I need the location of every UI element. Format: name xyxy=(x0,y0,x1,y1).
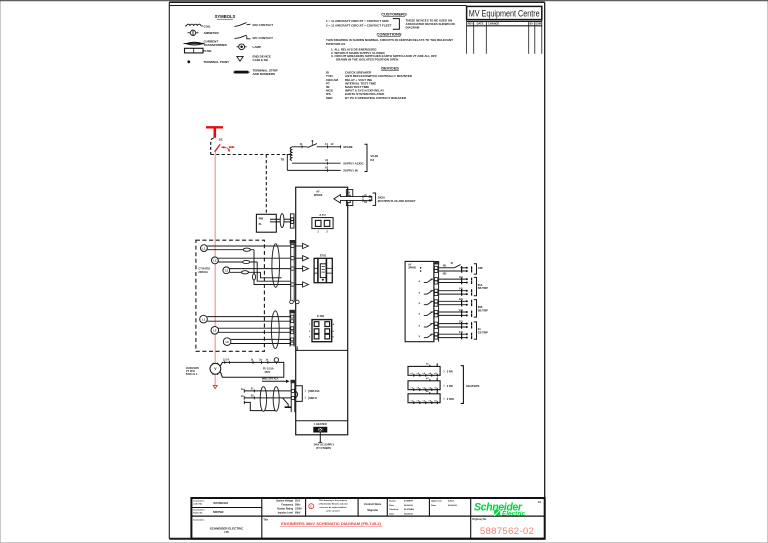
svg-text:COIL: COIL xyxy=(204,24,211,28)
svg-text:3PH60: 3PH60 xyxy=(314,193,323,197)
svg-text:TERMINAL POINT: TERMINAL POINT xyxy=(204,60,230,64)
outgoing row 7 wire markers xyxy=(462,333,472,340)
outgoing bracket 3 xyxy=(474,300,477,318)
svg-text:BY PA S OPERATING CONTACT BREA: BY PA S OPERATING CONTACT BREAKER xyxy=(345,96,407,100)
svg-text:E TB1: E TB1 xyxy=(317,314,325,318)
notes: conditions heading xyxy=(376,32,401,37)
relay arrow N xyxy=(303,282,309,287)
metering CT M3 circle xyxy=(223,338,231,346)
system data cell xyxy=(276,499,302,514)
svg-text:Impulse Level: Impulse Level xyxy=(278,512,294,514)
svg-text:2000/1A: 2000/1A xyxy=(198,271,208,274)
svg-text:Contract Name: Contract Name xyxy=(364,503,382,506)
notes: devices heading xyxy=(381,65,399,70)
notes: device list xyxy=(326,71,413,100)
CT L3 lens xyxy=(241,271,248,274)
CT L1 secondary wires xyxy=(207,245,291,247)
CT link wires into panel xyxy=(272,278,291,281)
CT L2 primary circle xyxy=(212,257,219,264)
VT earth stub wire xyxy=(244,402,274,410)
svg-text:Frequency: Frequency xyxy=(281,504,293,506)
svg-text:Order No: Order No xyxy=(193,513,203,515)
VT terminal rail xyxy=(291,383,295,412)
svg-text:1 HEATER: 1 HEATER xyxy=(314,422,327,426)
svg-text:TB: TB xyxy=(281,158,285,162)
test block terminals xyxy=(314,322,329,339)
power meter PM box xyxy=(256,214,276,232)
relay arrow B xyxy=(303,256,309,261)
svg-text:A TU: A TU xyxy=(319,213,325,217)
relay K2 mid line xyxy=(292,162,341,164)
notes: customer lines xyxy=(326,19,392,28)
svg-text:BB TRIP: BB TRIP xyxy=(478,287,488,290)
outgoing row 6 wire markers xyxy=(462,322,472,329)
CT rail terminals xyxy=(291,244,294,286)
svg-text:order No: order No xyxy=(193,504,203,506)
svg-text:MM2 SP2 41A: MM2 SP2 41A xyxy=(262,377,278,380)
svg-text:CHANGE: CHANGE xyxy=(488,22,500,26)
outgoing row 3 wires xyxy=(439,291,466,294)
CT L3 secondary wires xyxy=(230,268,291,270)
outgoing row 3 rail terminals xyxy=(434,289,437,292)
outgoing row 4 wires xyxy=(439,301,466,304)
outgoing row 6 relay contact xyxy=(424,324,434,327)
multipin bracket xyxy=(373,193,376,205)
svg-text:13 14: 13 14 xyxy=(223,358,229,361)
metering terminal rail xyxy=(290,313,294,346)
earth drop diagonal xyxy=(283,398,289,407)
customer order cell xyxy=(193,500,205,506)
svg-text:K2: K2 xyxy=(370,158,374,162)
metering cable trunk oval xyxy=(271,311,279,349)
svg-text:04-04-03: 04-04-03 xyxy=(448,504,458,507)
drawing frame xyxy=(169,2,544,539)
svg-text:CONDITIONS: CONDITIONS xyxy=(376,32,401,37)
heater element xyxy=(314,427,327,432)
outgoing row 2 wire markers xyxy=(462,277,472,284)
VT loopback link xyxy=(295,386,302,402)
our order cell xyxy=(193,509,205,515)
metering CT M1 circle xyxy=(200,315,208,323)
svg-text:Date: Date xyxy=(389,513,395,516)
CT terminal rail xyxy=(291,244,295,303)
svg-text:Customers: Customers xyxy=(193,518,205,521)
svg-text:CHK: CHK xyxy=(536,22,542,26)
relay K2 contact plunger dot xyxy=(312,140,314,142)
CT star point lens xyxy=(253,274,256,280)
CT L1 return drop xyxy=(254,250,291,285)
metering CT M2 wires xyxy=(219,327,291,329)
svg-text:This drawing is the property: This drawing is the property xyxy=(319,499,348,502)
svg-text:MULTIPIN PLUG AND SOCKET: MULTIPIN PLUG AND SOCKET xyxy=(378,199,416,203)
svg-text:N/O CONTACT: N/O CONTACT xyxy=(253,23,274,27)
svg-text:〉 3 RR: 〉 3 RR xyxy=(443,384,452,388)
metering CT M1 wires xyxy=(207,316,290,318)
svg-text:〉 ⎛MM N: 〉 ⎛MM N xyxy=(305,396,317,400)
svg-text:50Hz: 50Hz xyxy=(295,504,301,506)
svg-text:Title: Title xyxy=(263,518,268,521)
relay contact terminal ticks xyxy=(302,145,341,148)
svg-text:SUPPLY IN: SUPPLY IN xyxy=(343,169,357,173)
relay K2 bracket xyxy=(364,144,367,171)
svg-text:SK2A: SK2A xyxy=(378,196,385,200)
svg-text:Electric: Electric xyxy=(502,511,526,518)
earth bar xyxy=(285,406,292,408)
metering rail terminals xyxy=(291,315,294,345)
svg-text:CUSTOMERS: CUSTOMERS xyxy=(381,11,407,16)
title block outer box xyxy=(191,498,544,539)
red withdrawable breaker switch blade xyxy=(215,144,221,151)
salmon feeder line down to VT xyxy=(214,152,216,364)
outgoing row 3 relay contact xyxy=(424,291,434,294)
svg-text:250V: 250V xyxy=(265,371,271,374)
relay K2 left return wire xyxy=(286,155,288,171)
svg-text:5887562: 5887562 xyxy=(213,510,224,514)
drawn checked cell xyxy=(389,499,414,515)
svg-text:Customers: Customers xyxy=(193,509,205,512)
VT loop ticks xyxy=(253,361,268,364)
VT secondary wire n xyxy=(244,397,295,399)
svg-text:prior consent: prior consent xyxy=(326,509,340,512)
legend indicator lamp symbol xyxy=(237,44,247,50)
svg-text:50VA CL1: 50VA CL1 xyxy=(186,373,198,376)
VT wiring lens 1 xyxy=(260,387,266,412)
VT mini fuse circle xyxy=(274,358,278,362)
svg-text:CBF: CBF xyxy=(478,267,484,270)
notes: conditions paragraph xyxy=(326,38,453,62)
outgoing terminal cubicle box xyxy=(405,261,434,341)
svg-text:11kV: 11kV xyxy=(295,500,301,502)
aux transformer box xyxy=(312,218,333,229)
revision table headers xyxy=(468,22,542,26)
metering CT M3 wires xyxy=(231,338,290,340)
legend N/O contact symbol xyxy=(235,23,251,27)
test block E TB1 body xyxy=(312,320,332,342)
outgoing row 5 relay contact xyxy=(424,312,434,315)
svg-text:N/C CONTACT: N/C CONTACT xyxy=(253,36,274,40)
svg-text:SPARE: SPARE xyxy=(343,145,353,149)
svg-text:DATE: DATE xyxy=(477,22,484,26)
svg-text:04-04-03: 04-04-03 xyxy=(404,513,414,516)
title block grid xyxy=(191,498,544,539)
svg-text:M.JONES: M.JONES xyxy=(404,509,414,511)
legend changeover contact symbol xyxy=(235,35,251,39)
svg-text:AMMETER: AMMETER xyxy=(204,31,220,35)
svg-text:of Schneider Electric Ltd and: of Schneider Electric Ltd and xyxy=(319,503,348,506)
svg-text:SCHNEIDER ELECTRIC: SCHNEIDER ELECTRIC xyxy=(210,526,244,530)
svg-text:CABLE SB: CABLE SB xyxy=(253,58,269,62)
notes: customers heading xyxy=(381,11,407,16)
approved cell xyxy=(431,499,457,506)
CT L3 primary circle xyxy=(223,267,230,274)
svg-text:ENGINEERS 36kV SCHEMATIC DIAGR: ENGINEERS 36kV SCHEMATIC DIAGRAM (FB-T45… xyxy=(281,522,381,526)
relay arrow C xyxy=(303,266,309,271)
svg-text:LAMP: LAMP xyxy=(253,45,262,49)
wire a start tick xyxy=(244,389,254,404)
svg-text:Date: Date xyxy=(431,504,437,507)
outgoing row 7 wires xyxy=(439,334,466,337)
outgoing terminal rail xyxy=(434,261,439,341)
panel compartment divider upper xyxy=(296,349,348,351)
relay K2 bottom line xyxy=(287,169,340,171)
svg-text:1250A: 1250A xyxy=(295,507,302,510)
multipin socket arrow xyxy=(334,195,372,203)
outgoing row 4 rail terminals xyxy=(434,300,437,303)
svg-text:Busbar Rating: Busbar Rating xyxy=(277,507,293,510)
outgoing row 1 wire markers xyxy=(462,266,472,273)
svg-text:〉 3 SPH: 〉 3 SPH xyxy=(443,397,454,401)
svg-text:BY: BY xyxy=(530,22,534,26)
heater supply drop xyxy=(319,432,321,443)
outgoing bracket 1 xyxy=(474,264,477,274)
svg-text:2 = 11 AIRCRAFT CIRCUIT = CONT: 2 = 11 AIRCRAFT CIRCUIT = CONTACT FLEET xyxy=(326,23,392,27)
svg-text:SUPPLY AC/DC: SUPPLY AC/DC xyxy=(343,161,363,165)
outgoing row 3 wire markers xyxy=(462,289,472,296)
outgoing row 5 wires xyxy=(439,312,466,315)
symbols legend heading xyxy=(215,14,236,19)
outgoing row 5 wire markers xyxy=(462,310,472,317)
PM wire pair to panel xyxy=(270,218,291,220)
sheet title box: MV Equipment Centre xyxy=(467,6,542,19)
trip relay K2 coil xyxy=(287,147,292,160)
outgoing bracket 2 xyxy=(474,277,477,295)
svg-text:Date: Date xyxy=(389,504,395,507)
CT cable trunk oval xyxy=(272,244,280,288)
legend meter symbol xyxy=(188,30,199,35)
Schneider logo xyxy=(474,502,526,518)
svg-text:Checked: Checked xyxy=(389,509,399,511)
red incoming busbar xyxy=(206,126,223,128)
svg-text:FUSE: FUSE xyxy=(204,49,212,53)
outgoing row 5 rail terminals xyxy=(434,311,437,314)
CT cubicle dashed boundary xyxy=(196,240,265,351)
multipin wire ticks xyxy=(362,195,364,202)
svg-text:〉 3 RR: 〉 3 RR xyxy=(443,369,452,373)
svg-text:AND NUMBERS: AND NUMBERS xyxy=(253,72,276,76)
CT L2 return drop xyxy=(257,262,272,281)
svg-text:MV Equipment Centre: MV Equipment Centre xyxy=(469,8,540,18)
protection relay body xyxy=(314,258,332,282)
svg-text:REV: REV xyxy=(468,22,474,26)
VT secondary wire a xyxy=(244,390,295,392)
svg-text:3PH60: 3PH60 xyxy=(408,267,416,270)
VT primary circle xyxy=(210,363,221,374)
aux transformer pin 1 xyxy=(315,220,321,226)
outgoing row 4 wire markers xyxy=(462,300,472,307)
panel right edge terminal block MK xyxy=(346,190,352,206)
svg-text:A.SMITH: A.SMITH xyxy=(404,499,413,502)
outgoing row 2 wires xyxy=(439,279,466,282)
svg-text:DEVICES: DEVICES xyxy=(381,65,399,70)
dashed control wire to relay K2 xyxy=(211,154,287,156)
legend fuse symbol xyxy=(185,48,204,53)
outgoing row 2 relay contact xyxy=(424,279,434,282)
aux transformer pin 2 xyxy=(324,220,330,226)
CT L1 primary circle xyxy=(201,245,208,252)
outgoing row 2 rail terminals xyxy=(434,278,437,281)
svg-text:BB TRIP: BB TRIP xyxy=(478,309,488,312)
svg-text:Approved: Approved xyxy=(431,499,442,502)
svg-text:A1: A1 xyxy=(538,500,542,504)
outgoing row 6 wires xyxy=(439,324,466,327)
svg-text:Drg/Assy No: Drg/Assy No xyxy=(472,518,486,521)
svg-text:LTD: LTD xyxy=(224,531,229,534)
dashed wire down to power meter xyxy=(265,155,267,215)
VT secondary loop xyxy=(220,362,283,377)
svg-text:Drawn: Drawn xyxy=(389,500,396,502)
notes: customer bracket xyxy=(393,19,400,30)
outgoing row 1 rail terminals xyxy=(434,266,437,269)
outgoing row 6 rail terminals xyxy=(434,322,437,325)
relay K2 top contact line xyxy=(292,144,341,148)
notes: bracket side text xyxy=(406,18,455,29)
svg-text:must not be copied without: must not be copied without xyxy=(319,506,346,509)
legend CT primary symbol xyxy=(184,42,205,45)
CT L3 return elbow xyxy=(261,272,273,278)
red busbar dropper stub xyxy=(214,127,217,138)
aux contact row CBF internal dots xyxy=(420,267,422,269)
svg-text:5887562-02: 5887562-02 xyxy=(480,526,534,537)
CT L2 secondary wires xyxy=(218,257,291,259)
outgoing row 4 relay contact xyxy=(424,301,434,304)
svg-text:SK: SK xyxy=(347,191,351,194)
outgoing bracket 4 xyxy=(474,322,477,339)
svg-text:〉 ⎛MM 63A: 〉 ⎛MM 63A xyxy=(305,389,320,393)
salmon feeder line below VT xyxy=(214,374,216,385)
relay input arrows from CT rail xyxy=(294,246,302,285)
svg-text:BY OTHERS: BY OTHERS xyxy=(316,447,331,450)
panel compartment divider lower xyxy=(296,420,348,422)
svg-text:SYMBOLS: SYMBOLS xyxy=(215,14,236,19)
red cable end arrow xyxy=(213,385,217,388)
heater loop 2 xyxy=(408,378,440,390)
svg-text:1 = 11 AIRCRAFT CIRCUIT = CONT: 1 = 11 AIRCRAFT CIRCUIT = CONTACT SEM xyxy=(326,19,389,23)
svg-text:FL: FL xyxy=(259,222,263,226)
svg-text:A.N.O.: A.N.O. xyxy=(448,499,455,502)
test block pin labels xyxy=(309,323,335,339)
svg-text:KBR: KBR xyxy=(326,96,333,100)
PM terminal block on panel edge xyxy=(290,214,294,228)
outgoing row 7 rail terminals xyxy=(434,333,437,336)
heater group bracket xyxy=(461,366,464,404)
svg-text:Customers: Customers xyxy=(193,500,205,503)
svg-text:HEATERS: HEATERS xyxy=(466,384,479,388)
heater loop 1 xyxy=(408,363,440,375)
copyright stamp xyxy=(309,504,314,509)
legend cable end triangle symbol xyxy=(237,56,243,61)
VT output arrow xyxy=(262,380,286,382)
dashed elbow from busbar xyxy=(211,138,214,154)
svg-text:04-04-03: 04-04-03 xyxy=(404,504,414,507)
metering CT M2 circle xyxy=(211,327,219,335)
metering rail exit wire xyxy=(296,347,298,351)
red racking arrows xyxy=(221,146,235,152)
svg-text:PM: PM xyxy=(259,217,264,221)
legend coil symbol xyxy=(185,24,203,26)
CT L2 lens xyxy=(243,260,250,263)
VT wiring lens 2 xyxy=(273,387,279,412)
aux contact row CBF wire numbers xyxy=(443,262,454,275)
svg-text:System Voltage: System Voltage xyxy=(276,499,294,502)
PM cable lens xyxy=(280,214,284,228)
svg-text:TRANSFORMER: TRANSFORMER xyxy=(204,43,228,47)
svg-text:E701: E701 xyxy=(320,254,327,258)
svg-text:POSITION AS: POSITION AS xyxy=(326,42,345,46)
svg-text:DRAWN IN THE ISOLATED POSITION: DRAWN IN THE ISOLATED POSITION OPEN xyxy=(336,58,398,62)
svg-text:CB TRIP: CB TRIP xyxy=(478,332,488,335)
svg-text:4567890123: 4567890123 xyxy=(213,501,228,505)
legend terminal point symbol xyxy=(187,60,190,63)
CT earth link circles xyxy=(290,300,294,304)
relay arrow A xyxy=(303,243,309,248)
aux contact row CBF wires xyxy=(439,265,466,271)
revision table xyxy=(467,20,542,54)
heater loop 3 xyxy=(408,391,440,403)
svg-text:Magnolia: Magnolia xyxy=(367,509,378,512)
legend withdrawable link symbol xyxy=(233,71,250,74)
outgoing row 7 relay contact xyxy=(424,334,434,337)
svg-text:95kV: 95kV xyxy=(295,512,301,514)
CT L1 lens xyxy=(243,248,250,251)
main panel enclosure box xyxy=(296,187,348,435)
svg-text:DIAGRAM: DIAGRAM xyxy=(406,26,420,30)
